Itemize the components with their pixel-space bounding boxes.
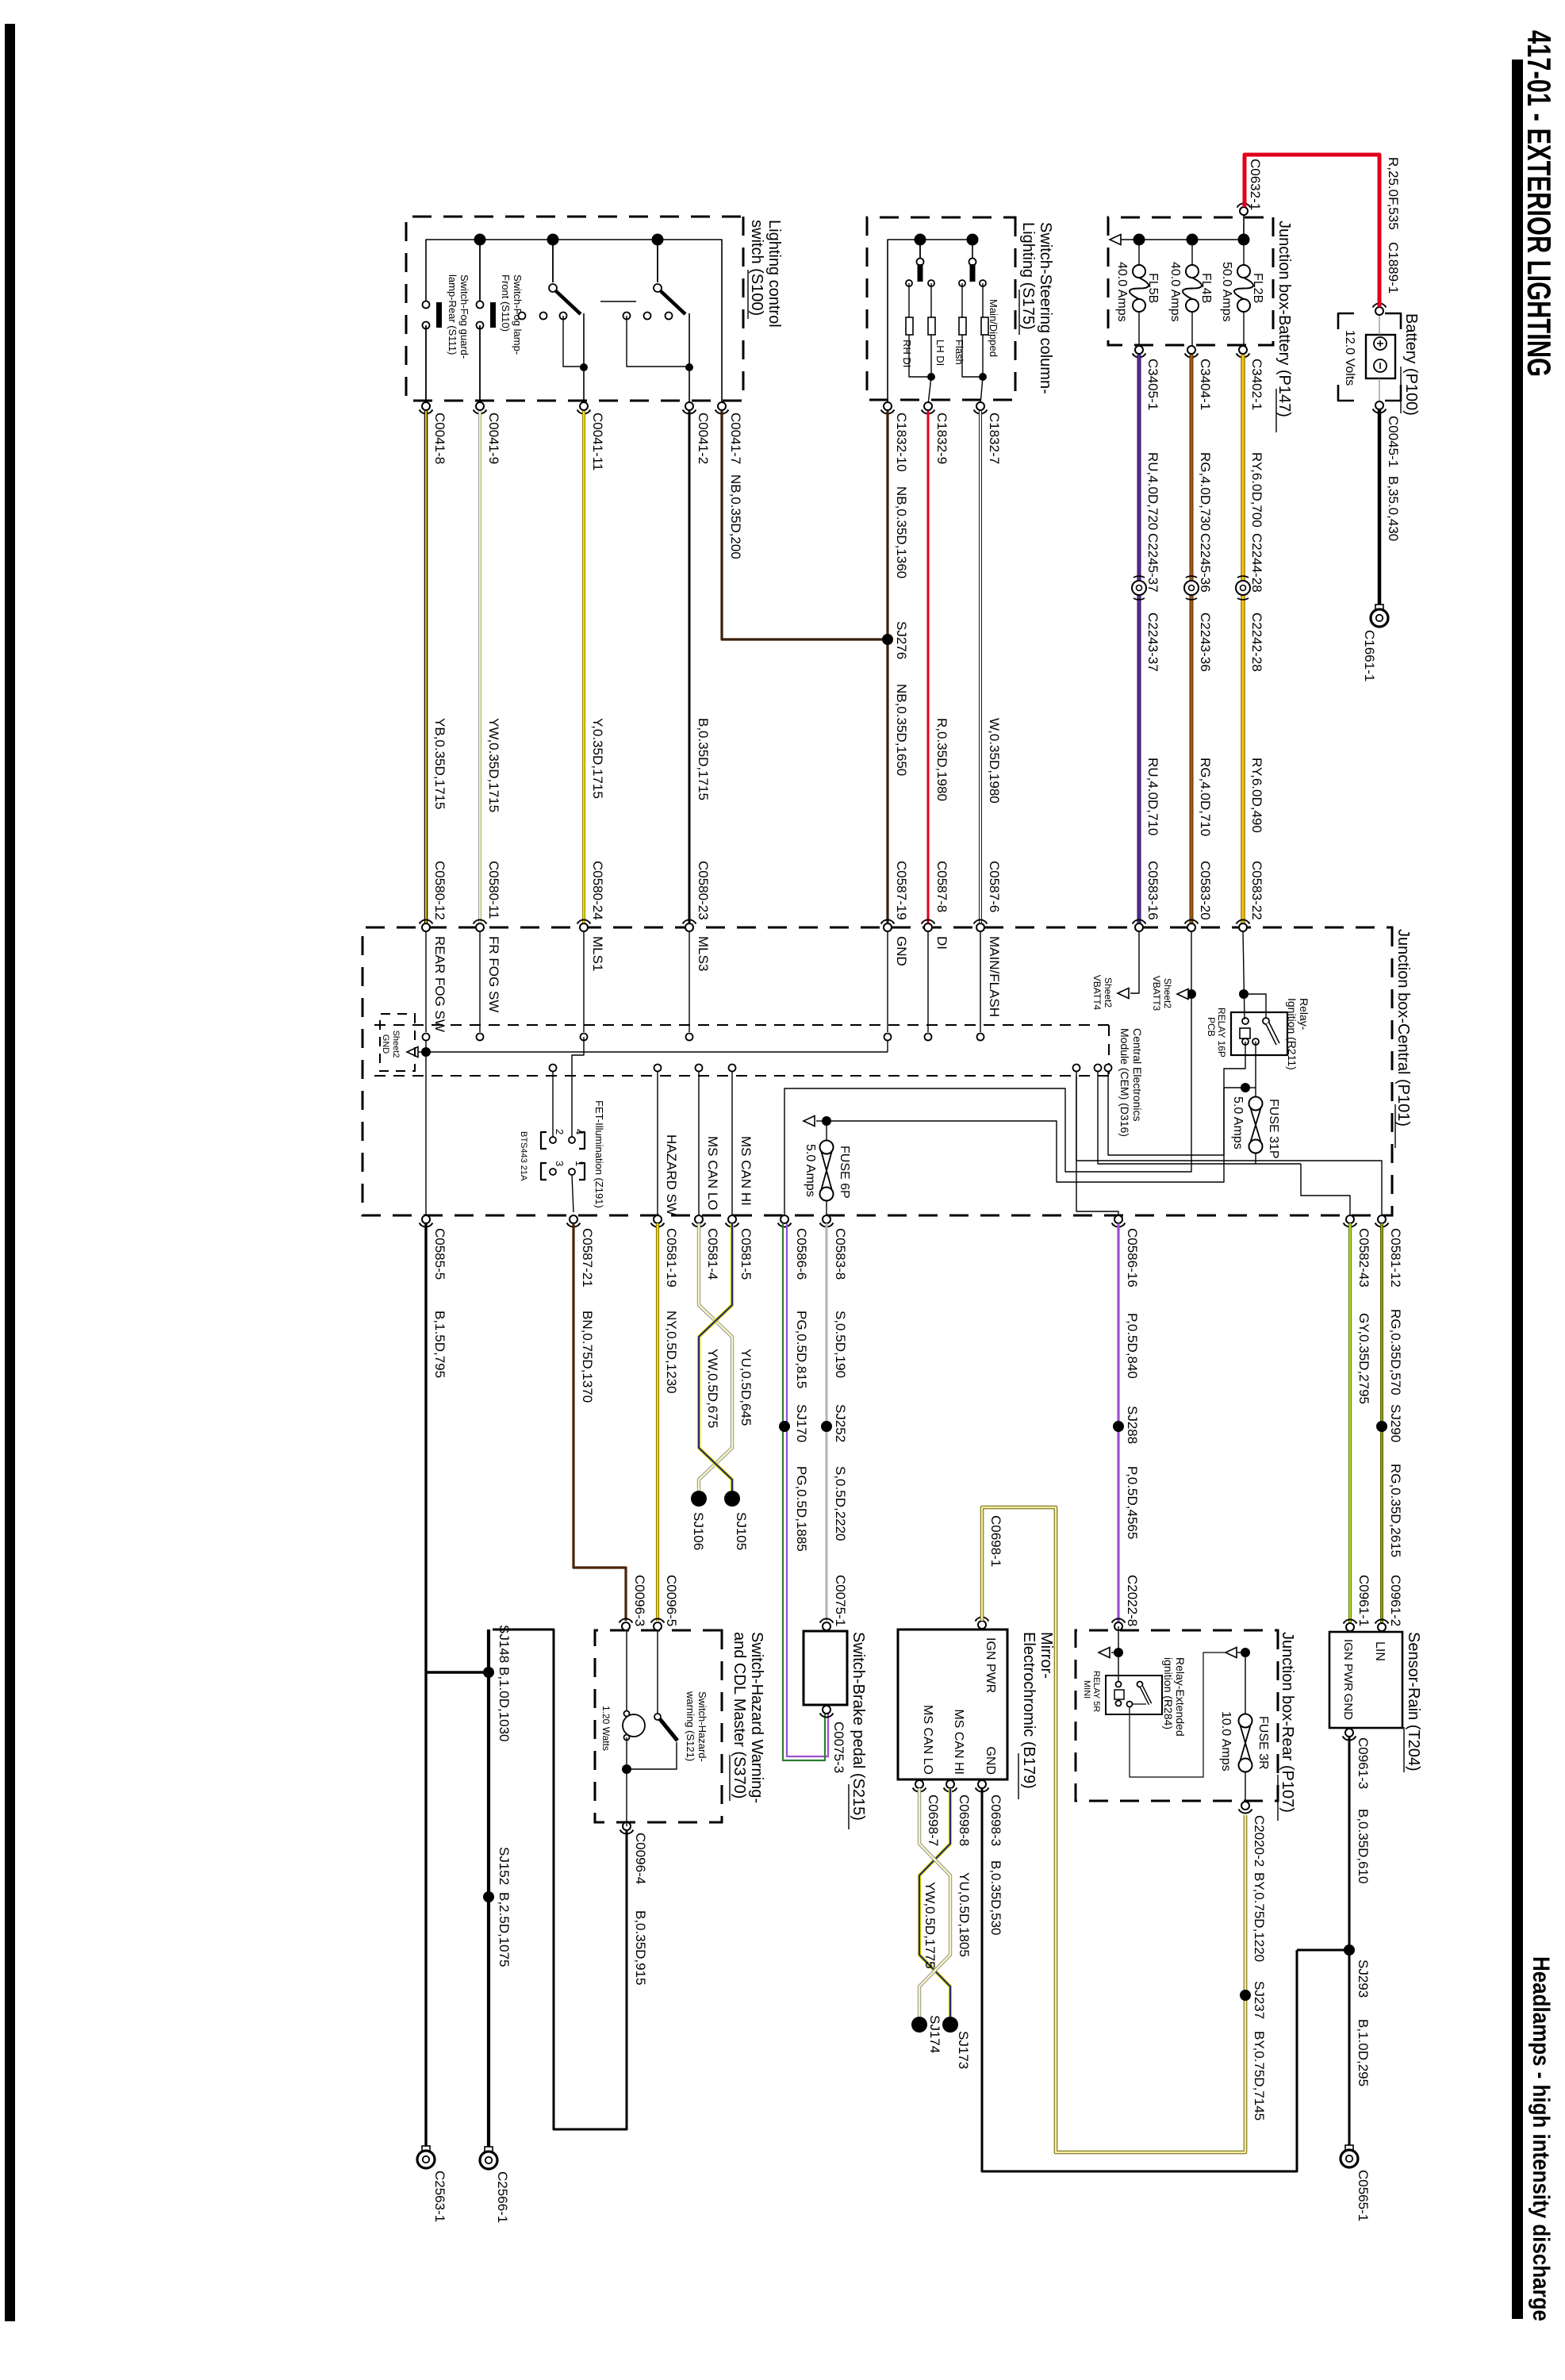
svg-text:2: 2: [554, 1129, 566, 1134]
svg-text:Central Electronics: Central Electronics: [1131, 1028, 1144, 1122]
fuse FL4B: [1191, 240, 1193, 265]
svg-text:P,0.5D,840: P,0.5D,840: [1125, 1313, 1140, 1379]
svg-text:C0580-12: C0580-12: [432, 861, 447, 920]
Sheet2 GND bus: [426, 1051, 888, 1053]
wire YW,0.35D,1715 front fog: [478, 411, 481, 923]
wire S370 internal to C0096-4: [626, 1769, 627, 1826]
svg-text:MLS3: MLS3: [696, 936, 711, 971]
svg-text:C0580-24: C0580-24: [590, 861, 605, 920]
wire Y,0.35D,1715 MLS1: [582, 411, 585, 923]
continue arrow P147 bus: [1110, 235, 1121, 245]
wire YB,0.35D,1715 rear fog: [424, 411, 428, 923]
svg-text:40.0 Amps: 40.0 Amps: [1115, 262, 1129, 322]
switch S370 box: [595, 1630, 722, 1822]
svg-text:FL4B: FL4B: [1199, 273, 1213, 303]
svg-text:RELAY 16P: RELAY 16P: [1216, 1008, 1227, 1058]
pin C1889-1: [1375, 307, 1383, 315]
wire P107 arrow stub2: [1238, 1652, 1245, 1653]
wire BY,0.75D ignition feed (pale yellow): [982, 1507, 1245, 2152]
wire B,0.35D,610 / B,1.0D,295: [1348, 1737, 1351, 2148]
svg-text:C0045-1: C0045-1: [1386, 416, 1401, 467]
svg-text:50.0 Amps: 50.0 Amps: [1220, 262, 1233, 322]
node P107 fuse dot: [1241, 1648, 1250, 1657]
pin C0587-21: [570, 1215, 577, 1223]
svg-text:C1832-9: C1832-9: [934, 413, 949, 464]
node SJ290: [1376, 1421, 1387, 1432]
svg-text:RG,0.35D,2615: RG,0.35D,2615: [1388, 1464, 1403, 1557]
wire S,0.5D grey: [826, 1223, 828, 1621]
wire fuse6P arrow stub: [816, 1120, 827, 1122]
CEM pin circle MLS1: [581, 1034, 588, 1041]
svg-text:C0041-2: C0041-2: [696, 413, 711, 464]
pin C0581-12: [1378, 1215, 1386, 1223]
battery P100 brackets: [1385, 313, 1401, 329]
pin C0582-43: [1346, 1215, 1354, 1223]
svg-text:C2245-36: C2245-36: [1198, 533, 1213, 593]
CEM pin circle rear fog: [423, 1034, 430, 1041]
P147 bus wire: [1121, 239, 1244, 240]
svg-text:RY,6.0D,490: RY,6.0D,490: [1249, 758, 1264, 833]
svg-text:B,0.35D,530: B,0.35D,530: [988, 1860, 1003, 1936]
CEM pin circle MSCANHI: [729, 1065, 736, 1072]
svg-text:YB,0.35D,1715: YB,0.35D,1715: [432, 718, 447, 809]
svg-text:1: 1: [573, 1161, 585, 1166]
svg-text:C0565-1: C0565-1: [1356, 2170, 1371, 2221]
svg-text:10.0 Amps: 10.0 Amps: [1219, 1711, 1233, 1772]
module B179 Mirror-Electrochromic box: [898, 1630, 1007, 1779]
switch S121 Switch-Hazard-warning: [657, 1630, 658, 1714]
svg-text:GND: GND: [894, 936, 909, 966]
svg-text:RG,4.0D,730: RG,4.0D,730: [1198, 452, 1213, 531]
pin C0587-8: [924, 923, 932, 931]
svg-text:Switch-Hazard-: Switch-Hazard-: [696, 1691, 708, 1762]
svg-text:PG,0.5D,815: PG,0.5D,815: [794, 1311, 809, 1388]
fuse FUSE 31P: [1249, 1097, 1263, 1111]
wire fuse6P supply from dot 31P: [831, 1088, 1245, 1182]
pin C0580-24: [580, 923, 588, 931]
svg-text:C0698-8: C0698-8: [957, 1795, 972, 1846]
pin C0961-3: [1345, 1729, 1353, 1737]
relay R211 pins: [1242, 1018, 1249, 1024]
wire stub MLS3: [689, 931, 690, 1032]
svg-text:NB,0.35D,1650: NB,0.35D,1650: [894, 684, 909, 776]
svg-text:MINI: MINI: [1082, 1680, 1091, 1699]
svg-text:C1661-1: C1661-1: [1362, 630, 1377, 681]
pin C0583-20: [1187, 923, 1195, 931]
svg-text:NY,0.5D,1230: NY,0.5D,1230: [664, 1311, 679, 1394]
svg-text:GY,0.35D,2795: GY,0.35D,2795: [1356, 1313, 1371, 1404]
svg-text:Headlamps - high intensity dis: Headlamps - high intensity discharge: [1528, 1956, 1554, 2321]
pin C0580-11: [476, 923, 484, 931]
svg-text:and CDL Master (S370): and CDL Master (S370): [731, 1632, 748, 1798]
node SJ173: [942, 2017, 958, 2033]
continue arrow P107-1: [1099, 1648, 1110, 1658]
svg-text:C2566-1: C2566-1: [495, 2171, 510, 2223]
bottom rule: [5, 24, 15, 2321]
svg-text:C0587-21: C0587-21: [580, 1228, 595, 1288]
svg-text:C0580-11: C0580-11: [486, 861, 501, 919]
svg-text:R,0.35D,1980: R,0.35D,1980: [934, 718, 949, 801]
svg-text:C0581-4: C0581-4: [705, 1228, 720, 1280]
svg-text:BTS443 21A: BTS443 21A: [519, 1131, 528, 1181]
pin C3402-1: [1239, 346, 1247, 354]
node SJ174: [911, 2017, 927, 2033]
svg-text:B,1.5D,795: B,1.5D,795: [432, 1311, 447, 1378]
CEM pin circle MSCANLO: [696, 1065, 703, 1072]
svg-text:HAZARD SW: HAZARD SW: [664, 1134, 679, 1215]
svg-text:C0586-6: C0586-6: [794, 1228, 809, 1280]
svg-text:SJ148: SJ148: [497, 1625, 512, 1663]
node P107 dot1: [1114, 1648, 1123, 1657]
pin C3405-1: [1135, 346, 1143, 354]
pin C3404-1: [1187, 346, 1195, 354]
node S175 bus dot B: [967, 234, 979, 246]
wire R,25.0F,535 battery positive (red): [1245, 155, 1379, 307]
node SJ252: [821, 1421, 832, 1432]
relay R211 lever: [1268, 1023, 1278, 1044]
relay R284 pins: [1116, 1682, 1122, 1687]
svg-text:warning (S121): warning (S121): [685, 1691, 696, 1761]
svg-text:B,1.0D,1030: B,1.0D,1030: [497, 1667, 512, 1742]
wire SJ293 branch: [1297, 1949, 1349, 1952]
svg-text:C0581-12: C0581-12: [1388, 1228, 1403, 1288]
wire battery internal +: [1379, 316, 1380, 335]
pin C0632-1: [1240, 207, 1248, 215]
pin C0096-5: [654, 1622, 662, 1630]
svg-text:FL2B: FL2B: [1251, 273, 1264, 303]
svg-text:YW,0.35D,1715: YW,0.35D,1715: [486, 718, 501, 812]
pin C0583-16: [1135, 923, 1143, 931]
svg-text:FR FOG SW: FR FOG SW: [486, 936, 501, 1012]
pin C0581-5: [728, 1215, 736, 1223]
svg-text:GND: GND: [381, 1035, 390, 1054]
svg-text:REAR FOG SW: REAR FOG SW: [432, 936, 447, 1032]
svg-text:C0587-6: C0587-6: [987, 861, 1002, 912]
node S175 bus dot A: [915, 234, 926, 246]
node RY stub dot: [1239, 989, 1249, 999]
svg-text:SJ170: SJ170: [794, 1404, 809, 1442]
pin C1832-9: [924, 402, 932, 410]
switch S100 lever MLS3: [657, 240, 658, 282]
svg-text:LH DI: LH DI: [934, 340, 946, 366]
svg-text:C2563-1: C2563-1: [432, 2171, 447, 2222]
wire fuse31P out to C0582-43: [1098, 1071, 1256, 1164]
wire MS CAN HI stub: [731, 1068, 733, 1215]
wire B,35.0,430 battery negative (black): [1378, 409, 1382, 605]
svg-text:40.0 Amps: 40.0 Amps: [1168, 262, 1182, 322]
svg-text:Junction box-Central (P101): Junction box-Central (P101): [1394, 929, 1412, 1127]
node fuse6P dot: [822, 1116, 831, 1126]
pin Z191-4: [569, 1137, 575, 1143]
svg-text:SJ237: SJ237: [1252, 1981, 1267, 2019]
svg-text:Main/Dipped: Main/Dipped: [988, 299, 999, 357]
CEM pin circle fr fog: [477, 1034, 484, 1041]
switch S100 open position mark: [600, 301, 636, 302]
connector C2244-28/C2242-28: [1236, 581, 1250, 595]
pin C0045-1: [1375, 401, 1383, 409]
svg-text:C0581-5: C0581-5: [738, 1228, 754, 1280]
wire C0585-5 internal: [425, 1052, 427, 1215]
svg-text:Sheet2: Sheet2: [1162, 978, 1173, 1008]
svg-text:IGN PWR: IGN PWR: [984, 1637, 997, 1693]
pin C0075-3: [823, 1706, 830, 1714]
CEM pin circle MAIN/FLASH: [977, 1034, 984, 1041]
svg-text:Flash: Flash: [953, 340, 965, 365]
wire RY stub to relay: [1243, 931, 1245, 1019]
node P147 dot FL4B: [1187, 234, 1199, 246]
pin C0075-1: [823, 1622, 830, 1630]
svg-text:P,0.5D,4565: P,0.5D,4565: [1125, 1466, 1140, 1539]
svg-text:C0075-1: C0075-1: [833, 1575, 848, 1626]
wire VBATT4 from RU stub: [1130, 931, 1139, 993]
junction box P147: [1108, 217, 1273, 345]
wire stub FR FOG SW: [479, 931, 481, 1032]
node SJ170: [779, 1421, 790, 1432]
relay R284 lever: [1141, 1687, 1150, 1704]
node SJ288: [1113, 1421, 1124, 1432]
wire stub MLS1: [583, 931, 585, 1032]
relay R211 Relay-Ignition box: [1231, 1012, 1287, 1055]
svg-text:MS CAN LO: MS CAN LO: [705, 1136, 720, 1211]
pin C0581-4: [695, 1215, 703, 1223]
svg-text:ignition (R284): ignition (R284): [1162, 1657, 1175, 1729]
pin C0698-3: [978, 1780, 986, 1788]
svg-text:MS CAN HI: MS CAN HI: [738, 1136, 754, 1206]
svg-text:W,0.35D,1980: W,0.35D,1980: [987, 718, 1002, 804]
svg-text:C0096-3: C0096-3: [632, 1575, 647, 1626]
wire NB,0.35D,200 from C0041-7: [722, 411, 885, 639]
svg-text:Ignition (R211): Ignition (R211): [1286, 998, 1298, 1070]
svg-text:C0587-8: C0587-8: [934, 861, 949, 912]
S100 bus wire: [426, 240, 722, 406]
wire R,0.35D,1980 DI: [927, 411, 930, 923]
svg-text:MS CAN HI: MS CAN HI: [952, 1709, 965, 1775]
svg-text:5.0 Amps: 5.0 Amps: [804, 1144, 817, 1197]
svg-text:Y,0.35D,1715: Y,0.35D,1715: [590, 718, 605, 799]
svg-text:GND: GND: [1341, 1694, 1355, 1721]
pin C0580-23: [685, 923, 693, 931]
wire P,0.5D violet: [1117, 1223, 1119, 1622]
svg-text:YW,0.5D,675: YW,0.5D,675: [705, 1349, 720, 1428]
svg-text:Switch-Hazard Warning-: Switch-Hazard Warning-: [748, 1632, 765, 1803]
svg-text:C0096-5: C0096-5: [664, 1575, 679, 1626]
fuse FUSE 6P: [826, 1121, 827, 1141]
svg-text:B,0.35D,915: B,0.35D,915: [633, 1910, 648, 1986]
svg-text:YU,0.5D,645: YU,0.5D,645: [738, 1349, 754, 1426]
pin C0961-2: [1378, 1623, 1386, 1631]
pin C0587-6: [976, 923, 984, 931]
svg-text:C3404-1: C3404-1: [1198, 359, 1213, 410]
svg-text:SJ173: SJ173: [956, 2031, 971, 2069]
pin C0961-1: [1346, 1623, 1354, 1631]
svg-text:FL5B: FL5B: [1146, 273, 1160, 303]
svg-text:4: 4: [573, 1129, 585, 1134]
switch S215 Switch-Brake pedal box: [804, 1631, 847, 1705]
svg-text:Junction box-Battery (P147): Junction box-Battery (P147): [1275, 221, 1293, 417]
svg-text:NB,0.35D,200: NB,0.35D,200: [728, 474, 743, 559]
pin C1832-7: [976, 402, 984, 410]
CEM pin circle GND: [884, 1034, 892, 1041]
svg-text:RU,4.0D,710: RU,4.0D,710: [1145, 758, 1160, 835]
svg-text:C0698-3: C0698-3: [988, 1795, 1003, 1846]
node fuse31P dot: [1241, 1083, 1250, 1092]
wire stub GND: [887, 931, 888, 1032]
pin C0698-7: [915, 1780, 923, 1788]
pin C2022-8: [1114, 1622, 1122, 1630]
battery P100 body: [1366, 335, 1395, 378]
CEM pin circle relay: [1105, 1065, 1112, 1072]
resistor RH DI: [906, 317, 913, 335]
CEM module strip D316: [369, 1024, 1109, 1026]
pin C0581-19: [654, 1215, 662, 1223]
wire SJ148 branch to C0585-5 run: [426, 1671, 489, 1673]
ground C0565-1: [1345, 2145, 1353, 2152]
svg-text:C2242-28: C2242-28: [1249, 612, 1264, 672]
svg-text:C2020-2: C2020-2: [1252, 1815, 1267, 1867]
svg-text:BY,0.75D,7145: BY,0.75D,7145: [1252, 2031, 1267, 2121]
continue arrow Sheet2 GND: [407, 1047, 418, 1058]
pin C0041-8: [422, 402, 430, 410]
wire fuse31P dot jog: [1245, 1087, 1256, 1088]
wire HAZARD SW stub: [657, 1068, 658, 1215]
svg-text:Sheet2: Sheet2: [391, 1031, 401, 1058]
svg-text:Front (S110): Front (S110): [500, 274, 512, 332]
switch S175 Flash/MainDipped group: [969, 259, 976, 266]
svg-text:3: 3: [554, 1161, 566, 1166]
relay R284 coil: [1114, 1690, 1124, 1699]
wire NY,0.5D,1230: [656, 1223, 659, 1621]
pin C0583-8: [823, 1215, 830, 1223]
svg-text:12.0 Volts: 12.0 Volts: [1343, 330, 1356, 386]
continue arrow P107-2: [1226, 1648, 1237, 1658]
svg-text:C0583-8: C0583-8: [833, 1228, 848, 1280]
connector C2245-36/C2243-36: [1184, 581, 1199, 595]
svg-text:IGN PWR: IGN PWR: [1341, 1639, 1355, 1691]
wire GND bus to arrow: [418, 1051, 426, 1053]
node SJ237: [1240, 1990, 1251, 2001]
svg-text:VBATT4: VBATT4: [1091, 975, 1103, 1011]
pin C0585-5: [422, 1215, 430, 1223]
svg-text:RU,4.0D,720: RU,4.0D,720: [1145, 452, 1160, 530]
continue arrow VBATT4: [1118, 988, 1129, 999]
junction box P107: [1076, 1630, 1278, 1801]
pin C0698-8: [946, 1780, 954, 1788]
svg-text:B,35.0,430: B,35.0,430: [1386, 476, 1401, 541]
svg-text:B,0.35D,610: B,0.35D,610: [1356, 1809, 1371, 1884]
module Z191 FET-Illumination: [579, 1132, 585, 1149]
svg-text:C1889-1: C1889-1: [1386, 242, 1401, 294]
wire C2022-8 stub: [1118, 1626, 1119, 1681]
resistor Flash: [959, 317, 966, 335]
pin C0096-3: [622, 1622, 630, 1630]
svg-text:C0580-23: C0580-23: [696, 861, 711, 920]
pin C0586-6: [781, 1215, 788, 1223]
pin C0580-12: [422, 923, 430, 931]
wire W,0.35D,1980 MAIN/FLASH: [979, 411, 982, 923]
svg-text:BY,0.75D,1220: BY,0.75D,1220: [1252, 1872, 1267, 1962]
svg-text:C0698-7: C0698-7: [926, 1795, 941, 1846]
svg-text:LIN: LIN: [1373, 1641, 1387, 1661]
continue arrow VBATT3: [1177, 989, 1188, 1000]
node P147 dot FL5B: [1133, 234, 1145, 246]
svg-text:GND: GND: [984, 1746, 997, 1775]
svg-text:C0698-1: C0698-1: [988, 1515, 1003, 1567]
wire stub REAR FOG SW: [425, 931, 427, 1032]
node S100 bus dot 1: [652, 234, 664, 246]
wire Z191 pin1 to C0587-21: [572, 1175, 573, 1212]
svg-text:lamp-Rear (S111): lamp-Rear (S111): [447, 274, 458, 355]
node SJ105: [724, 1491, 740, 1507]
svg-text:B,0.35D,1715: B,0.35D,1715: [696, 718, 711, 800]
svg-text:C0581-19: C0581-19: [664, 1228, 679, 1288]
node SJ293: [1344, 1944, 1355, 1956]
svg-text:SJ293: SJ293: [1356, 1960, 1371, 1998]
switch S111 Switch-Fog guard-lamp-Rear: [423, 301, 430, 309]
svg-text:FUSE 31P: FUSE 31P: [1267, 1099, 1280, 1159]
svg-text:Lighting (S175): Lighting (S175): [1019, 222, 1037, 330]
svg-text:B,2.5D,1075: B,2.5D,1075: [497, 1892, 512, 1967]
svg-text:RH DI: RH DI: [901, 340, 913, 367]
wire P107 arrow stub1: [1111, 1652, 1118, 1653]
svg-text:Sheet2: Sheet2: [1103, 977, 1114, 1008]
svg-text:C0075-3: C0075-3: [831, 1722, 846, 1773]
svg-text:Junction box-Rear (P107): Junction box-Rear (P107): [1279, 1632, 1296, 1813]
notch dashed box at GND arrow: [380, 1014, 415, 1071]
wire B,0.35D,1715 MLS3: [689, 411, 691, 923]
svg-text:SJ252: SJ252: [833, 1404, 848, 1442]
svg-text:C2245-37: C2245-37: [1145, 533, 1160, 593]
node SJ276: [882, 634, 893, 645]
svg-text:C3402-1: C3402-1: [1249, 359, 1264, 410]
svg-text:C2243-36: C2243-36: [1198, 612, 1213, 672]
wire YU,0.5D,645 MS CAN HI: [699, 1223, 732, 1496]
svg-text:C0041-8: C0041-8: [432, 413, 447, 464]
svg-text:MLS1: MLS1: [590, 936, 605, 971]
wire C0586-16 internal from CEM: [1076, 1067, 1077, 1069]
wire branch to relay coil pin: [1244, 994, 1266, 1018]
svg-text:FET-Illumination (Z191): FET-Illumination (Z191): [593, 1100, 605, 1208]
svg-text:PG,0.5D,1885: PG,0.5D,1885: [794, 1466, 809, 1552]
wire Z191 pin 2 stub: [552, 1071, 554, 1137]
svg-text:Sensor-Rain (T204): Sensor-Rain (T204): [1405, 1632, 1422, 1772]
top rule: [1512, 59, 1523, 2319]
node S100 bus dot 3: [474, 234, 486, 246]
svg-text:Electrochromic (B179): Electrochromic (B179): [1020, 1632, 1038, 1789]
svg-text:SJ276: SJ276: [894, 621, 909, 659]
svg-text:1.20 Watts: 1.20 Watts: [600, 1706, 612, 1751]
pin C2020-2: [1241, 1802, 1249, 1810]
svg-text:C0961-3: C0961-3: [1356, 1737, 1371, 1789]
node GND bus dot: [421, 1047, 431, 1057]
svg-text:RG,0.35D,570: RG,0.35D,570: [1388, 1309, 1403, 1395]
twisted pair B179 MS CAN: [919, 1788, 950, 2021]
CEM pin circle DI: [925, 1034, 932, 1041]
wire RY,6.0D yellow feed: [1241, 355, 1245, 581]
pin C0583-22: [1239, 923, 1247, 931]
wire relay out path to CEM: [1108, 1042, 1245, 1155]
svg-text:SJ105: SJ105: [734, 1512, 749, 1550]
switch S175 box: [867, 217, 1015, 400]
wire RG,0.35D thin olive: [1380, 1223, 1383, 1622]
wire RU,4.0D purple feed: [1137, 355, 1141, 581]
svg-text:C0041-7: C0041-7: [728, 413, 743, 464]
svg-text:Relay-: Relay-: [1298, 998, 1310, 1031]
wire stub MAIN/FLASH: [980, 931, 981, 1032]
svg-text:DI: DI: [934, 936, 949, 950]
fuse FL5B: [1138, 240, 1140, 265]
svg-text:RY,6.0D,700: RY,6.0D,700: [1249, 452, 1264, 528]
resistor LH DI: [928, 317, 935, 335]
